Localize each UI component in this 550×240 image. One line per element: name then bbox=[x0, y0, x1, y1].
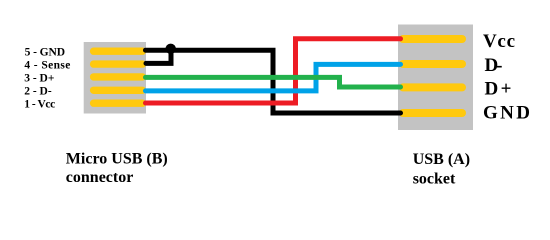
Vcc pin of USB (A) socket bbox=[403, 35, 462, 43]
USB (A) socket body bbox=[398, 25, 473, 131]
svg-text:D+: D+ bbox=[485, 79, 512, 100]
pin 1 (Vcc) of Micro USB connector bbox=[94, 99, 143, 106]
GND pin of USB (A) socket bbox=[403, 109, 462, 117]
wire D+ (green) from pin 3 to socket D+ bbox=[146, 77, 401, 87]
Micro USB (B) connector body bbox=[84, 42, 146, 114]
svg-text:Micro USB (B): Micro USB (B) bbox=[66, 150, 168, 167]
svg-text:socket: socket bbox=[413, 171, 456, 188]
wire D- (blue) from pin 2 to socket D- bbox=[146, 64, 401, 91]
svg-text:Vcc: Vcc bbox=[483, 31, 515, 52]
D- pin of USB (A) socket bbox=[403, 60, 462, 68]
svg-text:D-: D- bbox=[485, 55, 503, 76]
svg-text:3 - D+: 3 - D+ bbox=[24, 72, 54, 84]
svg-text:connector: connector bbox=[66, 169, 134, 186]
svg-text:5 - GND: 5 - GND bbox=[25, 46, 66, 58]
wire Vcc (red) from pin 1 to socket Vcc bbox=[146, 39, 401, 103]
svg-text:USB (A): USB (A) bbox=[413, 151, 470, 168]
D+ pin of USB (A) socket bbox=[403, 83, 462, 91]
pin 2 (D-) of Micro USB connector bbox=[94, 87, 143, 94]
svg-text:1 - Vcc: 1 - Vcc bbox=[24, 98, 55, 110]
pin 4 (Sense) of Micro USB connector bbox=[94, 60, 143, 67]
wire GND (black) from pin 5 to socket GND bbox=[146, 50, 401, 113]
pin 5 (GND) of Micro USB connector bbox=[94, 48, 143, 55]
wire Sense jumper (black) from pin 4 to GND wire bbox=[146, 51, 171, 63]
svg-text:4 - Sense: 4 - Sense bbox=[24, 59, 70, 71]
svg-text:GND: GND bbox=[483, 102, 530, 123]
junction dot on GND wire bbox=[166, 44, 176, 54]
pin 3 (D+) of Micro USB connector bbox=[94, 73, 143, 80]
svg-text:2 - D-: 2 - D- bbox=[24, 85, 52, 97]
